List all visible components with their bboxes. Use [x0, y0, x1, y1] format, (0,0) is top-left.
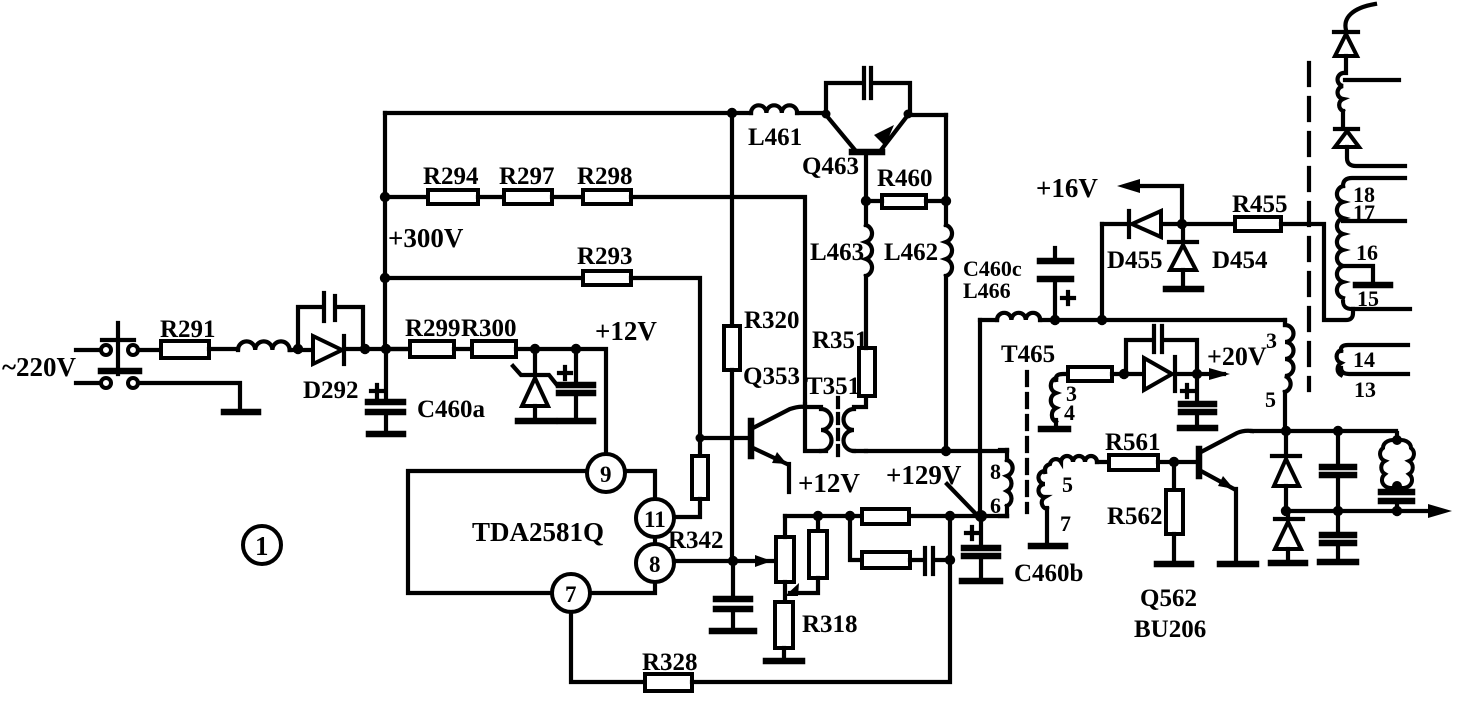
svg-text:BU206: BU206: [1134, 616, 1206, 643]
ground Q562 emitter: [1220, 561, 1256, 568]
svg-text:+12V: +12V: [798, 468, 860, 498]
junction dot D455 riser: [1097, 315, 1107, 325]
ground C564: [1320, 559, 1356, 566]
wire tap 16 electrode: [1343, 266, 1390, 285]
transistor Q353: [751, 407, 805, 492]
svg-text:~220V: ~220V: [2, 352, 77, 382]
inductor L466: [980, 313, 1285, 320]
resistor R294: [428, 190, 478, 204]
wire L462 column: [944, 115, 948, 451]
wire L461 to Q463: [797, 111, 826, 115]
resistor R297: [504, 190, 552, 204]
svg-text:C460b: C460b: [1014, 560, 1083, 587]
wire +300V bus vertical: [383, 113, 387, 349]
junction dots +129V row: [813, 510, 987, 522]
junction dot R460 right: [941, 196, 951, 206]
node snubber loop left corner: [298, 307, 321, 349]
svg-text:R293: R293: [577, 243, 633, 270]
junction dot R562: [1169, 457, 1179, 467]
zener diode D299: [513, 349, 557, 419]
wire R291 to filter coil: [209, 347, 238, 351]
wire D456 to +20V arrow: [1176, 372, 1224, 376]
wire tap 15 bottom: [1343, 302, 1410, 309]
resistor R562: [1166, 462, 1183, 562]
pin 8 circle: [636, 544, 674, 582]
svg-text:R342: R342: [668, 527, 724, 554]
ground at switch return: [224, 409, 258, 416]
resistor R456: [1068, 367, 1112, 381]
wire Q463 to L462 column: [908, 113, 946, 117]
junction dot D456 right: [1192, 369, 1202, 379]
junction dot pin8 node: [728, 556, 738, 566]
svg-text:3: 3: [1266, 328, 1277, 353]
svg-text:R299: R299: [405, 315, 461, 342]
capacitor C318 at pin8 node: [716, 561, 750, 629]
inductor L462: [946, 225, 952, 276]
resistor R351: [859, 348, 875, 396]
capacitor C460b electrolytic: [964, 516, 998, 578]
resistor R299: [410, 341, 454, 357]
transformer T351 primary winding: [805, 404, 832, 451]
resistor R328: [645, 674, 692, 691]
svg-text:L463: L463: [810, 239, 864, 266]
pin 9 circle: [587, 454, 625, 492]
capacitor C300 electrolytic: [559, 349, 593, 419]
flyback winding upper: [1338, 73, 1343, 111]
wire R299 to R300: [454, 347, 472, 351]
ground D564: [1271, 560, 1305, 567]
diode D563 upper: [1272, 431, 1300, 511]
transistor Q463: [822, 110, 913, 153]
svg-text:R300: R300: [461, 315, 517, 342]
svg-text:R561: R561: [1105, 429, 1161, 456]
wire L466 riser: [978, 320, 982, 516]
core flyback dashed: [1307, 63, 1311, 390]
wire R294 row from bus: [385, 195, 428, 199]
wire row corner into pot: [783, 516, 787, 537]
core T351 dashed: [836, 398, 840, 458]
switch S1 bottom pole contacts: [101, 378, 138, 388]
ground C460b: [962, 578, 1000, 585]
ground R562: [1157, 561, 1191, 568]
svg-text:R455: R455: [1232, 191, 1288, 218]
svg-text:L462: L462: [884, 239, 938, 266]
svg-text:+300V: +300V: [388, 223, 464, 253]
wire upper tap: [1345, 78, 1399, 82]
junction dot C321 right: [945, 555, 955, 565]
wire R320 top feed: [730, 113, 734, 326]
svg-text:+16V: +16V: [1036, 173, 1098, 203]
diode D456: [1144, 357, 1175, 391]
transistor Q562: [1199, 431, 1252, 562]
wire winding to D572: [1341, 111, 1345, 128]
ground zener: [518, 418, 554, 425]
svg-text:Q562: Q562: [1140, 585, 1197, 612]
inductor L463: [866, 225, 872, 276]
diode D292: [313, 336, 344, 364]
junction dot D454: [1177, 219, 1187, 229]
junction dot top rail R320 branch: [727, 108, 737, 118]
arrow output: [1428, 504, 1452, 518]
wire tap 17: [1343, 219, 1405, 223]
svg-text:T465: T465: [1001, 341, 1055, 368]
junction dot L462 row: [941, 446, 951, 456]
wire contact to R291: [138, 348, 161, 352]
svg-text:D455: D455: [1107, 247, 1163, 274]
wire R321 to C321: [910, 558, 922, 562]
node circled 1 figure mark: [243, 526, 281, 564]
capacitor C565 below coil: [1381, 486, 1412, 511]
pin 11 circle: [636, 499, 674, 537]
wire R298 row to T351 drop: [631, 197, 805, 406]
junction dot bus R293 row: [380, 273, 390, 283]
arrow pot wiper mark: [785, 583, 799, 596]
capacitor C292 across D292: [324, 293, 363, 349]
wire pot bottom to R318: [783, 582, 787, 602]
wire R320 to pin8 node: [730, 370, 734, 561]
svg-text:R320: R320: [744, 307, 800, 334]
wire R455 to flyback pin: [1281, 224, 1353, 320]
svg-text:TDA2581Q: TDA2581Q: [472, 517, 604, 547]
wire AC bottom pole lead: [76, 381, 100, 385]
wire pin 7 to R328: [571, 612, 645, 682]
junction dot R460 left: [861, 196, 871, 206]
svg-text:6: 6: [990, 493, 1001, 518]
ground C300: [560, 418, 593, 425]
junction dot cap tap: [571, 344, 581, 354]
wire +16V arrow line: [1138, 186, 1182, 224]
wire R460 leads: [866, 199, 946, 203]
core T465 dashed: [1025, 372, 1029, 512]
svg-text:C460a: C460a: [417, 396, 486, 423]
resistor R321 lower row: [862, 552, 910, 568]
ground C460a: [369, 431, 403, 438]
resistor R320: [724, 326, 740, 370]
svg-text:14: 14: [1353, 347, 1375, 372]
ground winding 7: [1031, 543, 1065, 550]
capacitor C460a electrolytic: [368, 349, 403, 432]
diode D564 lower: [1275, 511, 1303, 561]
wire D292 to bus: [344, 347, 410, 351]
wire R293 to vertical drop: [631, 278, 700, 456]
wire R293 row from bus: [385, 276, 583, 280]
transformer T351 secondary winding: [844, 396, 867, 451]
svg-text:Q353: Q353: [743, 363, 800, 390]
wire flyback secondary top: [1343, 178, 1405, 186]
wire R294 to R297: [478, 195, 504, 199]
resistor R291: [161, 341, 209, 358]
svg-text:R291: R291: [160, 316, 216, 343]
svg-text:5: 5: [1062, 472, 1073, 497]
wire R328 to +129V riser: [692, 516, 950, 682]
svg-text:L461: L461: [748, 124, 802, 151]
wire bottom pole to ground: [138, 383, 240, 409]
diode D455: [1129, 211, 1161, 237]
ground C318: [712, 628, 754, 635]
svg-text:9: 9: [600, 462, 612, 487]
svg-text:Q463: Q463: [802, 153, 859, 180]
wire R299 row from bus: [391, 347, 410, 351]
svg-text:15: 15: [1357, 286, 1379, 311]
diode D571 top: [1334, 32, 1358, 73]
svg-text:4: 4: [1064, 400, 1075, 425]
resistor R460: [882, 195, 926, 208]
resistor R561: [1109, 455, 1158, 470]
resistor R317 vertical: [790, 516, 827, 593]
junction dots collector row: [1281, 426, 1343, 436]
wire R300 to pin9 drop: [516, 349, 606, 454]
svg-text:R460: R460: [877, 165, 933, 192]
capacitor C463 across Q463: [826, 68, 910, 113]
svg-text:R351: R351: [812, 327, 868, 354]
junction dot bus R294 row: [380, 192, 390, 202]
resistor R300: [472, 341, 516, 357]
wire AC top pole lead: [76, 348, 100, 352]
wire Q353 base branch: [700, 436, 749, 440]
resistor R341 vertical to pin11: [692, 456, 708, 499]
diode D454: [1169, 224, 1197, 287]
resistor R319 top row: [862, 509, 909, 524]
svg-text:+20V: +20V: [1207, 342, 1267, 371]
svg-text:7: 7: [565, 582, 577, 607]
wire EHT lead hook: [1345, 4, 1375, 30]
wire D455 row: [1102, 222, 1235, 226]
svg-text:+12V: +12V: [595, 316, 657, 346]
svg-text:R298: R298: [577, 163, 633, 190]
svg-text:7: 7: [1060, 511, 1071, 536]
svg-text:13: 13: [1354, 377, 1376, 402]
capacitor C457 electrolytic: [1181, 374, 1214, 426]
resistor R293: [583, 271, 631, 285]
coil L563 filter: [1380, 433, 1414, 491]
wire resistor to pin 11: [674, 499, 700, 517]
wire D455 riser down: [1100, 224, 1104, 320]
svg-text:11: 11: [644, 507, 666, 532]
wire R318 to ground: [782, 648, 786, 659]
inductor L461: [751, 105, 797, 113]
ground C457: [1180, 425, 1215, 432]
transformer T465 winding 3-4: [1051, 374, 1068, 427]
capacitor C563 upper: [1322, 431, 1354, 511]
potentiometer R316: [776, 537, 794, 582]
capacitor C564 lower: [1322, 511, 1354, 560]
resistor R298: [583, 190, 631, 204]
wire +129V row: [785, 514, 1007, 518]
switch S1 top pole contacts: [101, 345, 138, 355]
resistor R455: [1235, 217, 1281, 231]
ground winding 4: [1041, 426, 1068, 433]
junction dot C460c: [1050, 315, 1060, 325]
transformer winding 3-5 heater: [1285, 320, 1294, 431]
wire top rail to L461: [385, 111, 751, 115]
capacitor C321: [925, 548, 950, 574]
wire R351 to L463: [864, 276, 868, 348]
svg-text:1: 1: [255, 531, 269, 561]
wire coil to D292: [290, 348, 313, 352]
wire R297 to R298: [552, 195, 583, 199]
svg-text:T351: T351: [806, 373, 860, 400]
wire R561 to Q562 base: [1158, 460, 1197, 464]
ground D454: [1166, 286, 1201, 293]
svg-text:16: 16: [1356, 240, 1378, 265]
arrow +16V: [1117, 179, 1140, 193]
svg-text:D292: D292: [303, 377, 359, 404]
wire pin 8 to regulator node: [674, 559, 773, 563]
capacitor C456 across D456: [1126, 326, 1197, 374]
switch S1 actuator cross: [101, 323, 139, 374]
pin 7 circle: [552, 574, 590, 612]
wire Q463 base to R460 node: [864, 153, 868, 225]
svg-text:L466: L466: [963, 278, 1011, 303]
resistor R318: [775, 602, 793, 648]
svg-text:R328: R328: [642, 649, 698, 676]
junction dot D456 left: [1119, 369, 1129, 379]
inductor L291 filter coil: [238, 341, 290, 350]
wire branch to lower row: [850, 516, 862, 560]
arrow +20V: [1209, 368, 1230, 380]
transformer T465 winding 8-6: [1000, 450, 1013, 516]
junction dots output row: [1281, 506, 1402, 516]
wire +129V pointer: [947, 484, 975, 513]
arrow pin8 wiper: [755, 555, 772, 567]
IC U1 TDA2581Q box: [408, 471, 655, 593]
wire R456 to D456: [1112, 372, 1144, 376]
junction dot base branch: [696, 434, 705, 443]
svg-text:17: 17: [1353, 200, 1375, 225]
wire output row: [1286, 509, 1430, 513]
svg-text:R294: R294: [423, 163, 479, 190]
wire collector row: [1252, 429, 1396, 433]
svg-text:R318: R318: [802, 611, 858, 638]
transformer T465 winding 5-7: [1039, 456, 1109, 544]
svg-text:8: 8: [990, 459, 1001, 484]
svg-text:R297: R297: [499, 163, 555, 190]
junction dots AC line: [293, 344, 391, 354]
winding 14-13: [1337, 345, 1408, 375]
diode D572: [1335, 129, 1405, 166]
flyback secondary winding: [1337, 186, 1343, 298]
svg-text:D454: D454: [1212, 247, 1268, 274]
svg-text:R562: R562: [1107, 503, 1163, 530]
svg-text:8: 8: [649, 552, 661, 577]
capacitor C460c electrolytic: [1040, 248, 1074, 320]
junction dot zener tap: [530, 344, 540, 354]
svg-text:5: 5: [1265, 387, 1276, 412]
wire T351 secondary row to T465: [866, 449, 1007, 453]
ground R318: [766, 658, 802, 665]
